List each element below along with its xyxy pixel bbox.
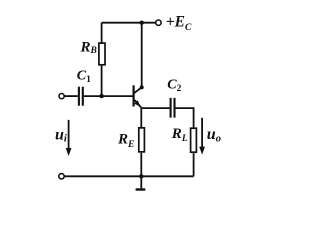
svg-text:C2: C2 xyxy=(167,78,181,95)
ground bar xyxy=(136,188,146,190)
resistor RB xyxy=(99,43,105,65)
wire emitter down to RE xyxy=(140,108,142,127)
wire emitter to C2 xyxy=(141,107,169,109)
svg-text:RB: RB xyxy=(80,39,97,56)
transistor Q emitter arrowhead xyxy=(134,100,140,106)
arrow ui head xyxy=(66,148,72,156)
svg-text:C1: C1 xyxy=(77,69,91,85)
wire C2 to RL corner xyxy=(176,108,194,127)
junction dot ground node xyxy=(139,174,143,178)
svg-text:ui: ui xyxy=(55,126,67,144)
svg-text:+EC: +EC xyxy=(166,14,192,33)
resistor RL xyxy=(191,128,197,152)
arrow uo head xyxy=(199,147,205,155)
wire collector vertical xyxy=(141,23,143,88)
transistor Q emitter diagonal xyxy=(134,100,141,108)
capacitor C2 xyxy=(171,98,175,118)
capacitor C1 xyxy=(79,87,83,106)
wire bottom rail xyxy=(64,175,193,177)
svg-text:uo: uo xyxy=(207,126,221,144)
junction dot top rail/collector xyxy=(140,21,144,25)
wire RB top xyxy=(101,23,103,43)
junction dot base node xyxy=(99,94,103,98)
wire top rail xyxy=(102,22,156,24)
resistor RE xyxy=(139,128,145,152)
wire RB bottom xyxy=(101,66,103,97)
transistor Q collector diagonal xyxy=(134,87,142,93)
arrow ui line xyxy=(68,120,70,151)
transistor Q base bar xyxy=(133,85,135,106)
wire RL bottom xyxy=(193,153,195,176)
wire RE bottom to ground bar xyxy=(140,153,142,189)
terminal +EC circle xyxy=(156,20,161,25)
arrow uo line xyxy=(201,118,203,149)
terminal bottom-left circle xyxy=(59,174,64,179)
terminal input circle xyxy=(59,94,64,99)
svg-text:RE: RE xyxy=(117,132,134,150)
svg-text:RL: RL xyxy=(171,126,188,144)
junction dot collector elbow xyxy=(140,85,144,89)
wire C1 to base xyxy=(84,95,133,97)
wire input to C1 xyxy=(64,95,78,97)
